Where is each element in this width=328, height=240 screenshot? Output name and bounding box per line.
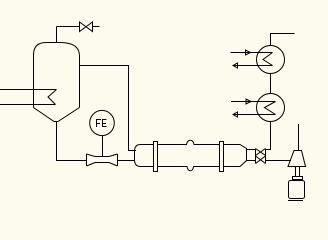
- feed chevron inside vessel: [48, 90, 57, 105]
- E1 right flange: [220, 142, 224, 172]
- instrument FE balloon: [90, 110, 115, 135]
- drain funnel: [288, 151, 306, 167]
- funnel legs: [295, 167, 297, 177]
- wire venturi to exchanger: [118, 160, 136, 162]
- E1 shell bottom: [158, 167, 220, 171]
- wire FE balloon to venturi: [102, 136, 104, 157]
- wire to top valve: [57, 26, 80, 28]
- feed line top (into vessel): [0, 89, 57, 91]
- E2 coil lines and chevron: [231, 52, 273, 54]
- recycle wire: vessel right to exchanger: [80, 66, 137, 151]
- wire E2 to E3: [270, 74, 272, 94]
- E3 coil lines and chevron: [231, 101, 276, 103]
- wire exchanger to valve (top): [247, 149, 256, 151]
- E2 outlet arrow: [233, 63, 238, 68]
- FE label letter F: [96, 120, 101, 128]
- E2 inlet arrow: [246, 50, 251, 55]
- E1 right cap: [224, 145, 247, 167]
- heat exchanger E1 left cap: [135, 145, 154, 167]
- cooler E3 (bottom circle): [257, 94, 285, 122]
- vessel bottom outlet wire: [57, 122, 87, 161]
- E1 shell top: [158, 140, 220, 144]
- feed line bottom (into vessel): [0, 104, 56, 106]
- wire after top valve: [93, 26, 100, 28]
- container base line: [288, 200, 303, 202]
- drain funnel vertical wire: [298, 124, 300, 151]
- FE label letter E: [102, 120, 107, 128]
- container can: [289, 181, 305, 199]
- wire valve to funnel: [266, 160, 292, 162]
- E3 inlet arrow: [246, 99, 251, 104]
- cooler E2 (top circle): [257, 46, 285, 74]
- double block valve: [255, 149, 257, 164]
- valve (top vent valve): [80, 22, 87, 32]
- E2 top outlet wire: [271, 34, 295, 46]
- E3 outlet arrow: [233, 112, 238, 117]
- wire valve up to cooler E3: [266, 122, 271, 150]
- container neck: [293, 177, 303, 180]
- venturi flow tube: [86, 154, 88, 166]
- vessel V1: [34, 43, 80, 108]
- wire exchanger to valve (bottom): [247, 160, 256, 162]
- vessel top nozzle wire: [56, 27, 58, 43]
- E1 left flange: [154, 142, 158, 172]
